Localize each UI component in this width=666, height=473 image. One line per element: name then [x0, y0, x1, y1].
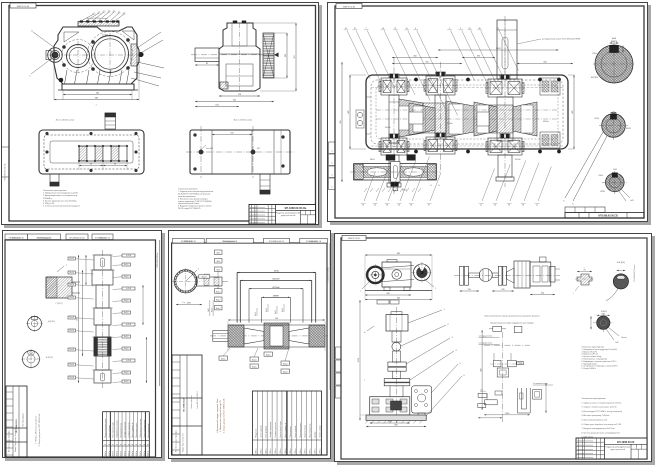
svg-text:Rа25: Rа25	[518, 363, 522, 365]
svg-text:2 фаски: 2 фаски	[621, 336, 627, 339]
svg-text:26: 26	[508, 205, 510, 207]
svg-text:8: 8	[132, 444, 134, 445]
svg-text:Ø36Р9: Ø36Р9	[626, 128, 631, 130]
svg-text:86ч0 м: 86ч0 м	[132, 450, 134, 456]
svg-text:Разраб. Пров. Т.контр. Н.контр: Разраб. Пров. Т.контр. Н.контр. Утв.	[15, 426, 17, 452]
svg-text:8: 8	[128, 444, 130, 445]
svg-text:86ч0 м: 86ч0 м	[105, 450, 107, 456]
svg-text:24: 24	[374, 205, 376, 207]
svg-text:2. Общие допуски по ГОСТ 30893: 2. Общие допуски по ГОСТ 30893.2-mК	[39, 413, 41, 447]
svg-text:Rа1,6: Rа1,6	[221, 358, 226, 360]
svg-text:Rа1,6: Rа1,6	[69, 284, 74, 286]
svg-text:33: 33	[410, 205, 412, 207]
svg-text:86ч0 м: 86ч0 м	[121, 450, 123, 456]
svg-text:1: 1	[360, 291, 361, 293]
svg-text:4. Абс цикл пространир. 7х95/ч: 4. Абс цикл пространир. 7х95/час	[582, 414, 610, 417]
svg-text:4: 4	[456, 350, 458, 352]
svg-text:250 кч: 250 кч	[300, 448, 302, 453]
svg-text:Число зубьев колеса: Число зубьев колеса	[144, 420, 146, 438]
svg-text:Rа1,6: Rа1,6	[124, 276, 129, 278]
svg-text:86ч0 м: 86ч0 м	[128, 450, 130, 456]
svg-text:Изм Лист № докум. Подп. Дата: Изм Лист № докум. Подп. Дата	[175, 430, 178, 452]
svg-text:М20: М20	[217, 270, 220, 272]
svg-text:Ø17: Ø17	[257, 148, 260, 150]
svg-text:250 кч: 250 кч	[285, 448, 287, 453]
svg-text:Ø156к6: Ø156к6	[273, 287, 281, 289]
svg-text:Rа1,6: Rа1,6	[266, 308, 268, 312]
svg-text:ЕМБРП.ОЧ.ЯБ: ЕМБРП.ОЧ.ЯБ	[343, 6, 356, 8]
svg-text:Число зубьев: Число зубьев	[295, 426, 297, 437]
svg-text:8. Частота вращения балка элек: 8. Частота вращения балка электродвигате…	[582, 432, 620, 434]
svg-text:13: 13	[362, 205, 364, 207]
svg-text:Rа1,6: Rа1,6	[69, 349, 74, 351]
svg-text:М20: М20	[217, 253, 220, 255]
svg-text:21: 21	[480, 205, 482, 207]
svg-text:3: 3	[452, 337, 454, 339]
svg-text:250 кч: 250 кч	[280, 448, 282, 453]
svg-text:5. Число зубьев барабана х1:4: 5. Число зубьев барабана х1:4	[582, 420, 608, 422]
svg-text:8: 8	[124, 444, 126, 445]
svg-text:8: 8	[117, 444, 119, 445]
svg-text:1: 1	[95, 105, 97, 107]
svg-text:В: В	[438, 185, 440, 187]
svg-text:Ø40Р9: Ø40Р9	[611, 41, 618, 43]
svg-text:Длина общей норм.: Длина общей норм.	[279, 421, 282, 438]
svg-text:двухступенчатый: двухступенчатый	[281, 214, 295, 217]
svg-text:з: з	[584, 267, 585, 269]
svg-text:Ø120к6: Ø120к6	[515, 159, 521, 161]
svg-text:0,02 А: 0,02 А	[126, 254, 132, 257]
svg-text:3. Для закладки ГОСТ 5НЖ-б, вк: 3. Для закладки ГОСТ 5НЖ-б, вкл (установ…	[582, 411, 623, 413]
svg-text:№: №	[331, 150, 334, 152]
svg-text:1х45°: 1х45°	[630, 200, 634, 202]
svg-text:Ø160к6: Ø160к6	[447, 123, 453, 125]
svg-text:КП-1968.00.00: КП-1968.00.00	[617, 440, 635, 444]
svg-text:№: №	[331, 174, 334, 176]
svg-text:Коэфф. смещения: Коэфф. смещения	[123, 422, 126, 438]
svg-text:12: 12	[31, 31, 33, 33]
svg-text:Rа1,6: Rа1,6	[69, 377, 74, 379]
svg-text:1. Нормальный модуль торцевый: 1. Нормальный модуль торцевый 10мм	[216, 398, 219, 433]
svg-text:Делит. диаметр d: Делит. диаметр d	[132, 423, 134, 437]
svg-text:Е (2,5:1): Е (2,5:1)	[46, 357, 53, 359]
svg-text:Г (2,5:1): Г (2,5:1)	[56, 303, 63, 305]
svg-text:Rа1,6: Rа1,6	[124, 372, 129, 374]
svg-text:16: 16	[494, 205, 496, 207]
svg-text:7. Нагрузка электродвигателя 4: 7. Нагрузка электродвигателя 4х12 обм	[582, 428, 616, 430]
svg-text:43: 43	[386, 205, 388, 207]
svg-text:5: 5	[460, 363, 462, 365]
svg-text:86ч0 м: 86ч0 м	[109, 450, 111, 456]
svg-text:Г: Г	[66, 265, 68, 267]
svg-text:Число зубьев z: Число зубьев z	[109, 425, 111, 438]
svg-text:2. Скорость тягового каната ук: 2. Скорость тягового каната указ. (пч/ч×…	[582, 406, 617, 409]
svg-text:8: 8	[105, 444, 107, 445]
svg-text:250 кч: 250 кч	[295, 448, 297, 453]
svg-text:8: 8	[140, 444, 142, 445]
svg-text:1: 1	[444, 309, 446, 311]
svg-text:Вал тихоходный: Вал тихоходный	[22, 414, 25, 427]
svg-text:Rа1,6: Rа1,6	[275, 310, 277, 314]
svg-text:х: х	[573, 293, 574, 295]
svg-text:КП-1968.02.01 Вал: КП-1968.02.01 Вал	[157, 253, 159, 268]
svg-text:250 кч: 250 кч	[275, 448, 277, 453]
svg-text:8: 8	[109, 444, 111, 445]
svg-text:23: 23	[522, 205, 524, 207]
svg-text:Rа1,6: Rа1,6	[124, 264, 129, 266]
svg-text:Исходный контур: Исходный контур	[120, 423, 123, 437]
svg-text:2. Нормальный исходный контур: 2. Нормальный исходный контур 25°	[219, 400, 222, 432]
svg-text:Редуктор цилиндрический: Редуктор цилиндрический	[276, 212, 300, 215]
svg-text:24 АΩК: 24 АΩК	[102, 34, 108, 37]
svg-text:Д (2,5:1): Д (2,5:1)	[47, 321, 55, 323]
svg-text:Ø98H7: Ø98H7	[273, 296, 280, 298]
svg-text:Разраб. Пров. Т.контр. Утв.: Разраб. Пров. Т.контр. Утв.	[183, 433, 185, 452]
svg-text:Делит. диаметр d: Делит. диаметр d	[285, 423, 287, 437]
svg-text:1х45°: 1х45°	[615, 342, 619, 344]
svg-text:86ч0 м: 86ч0 м	[144, 450, 146, 456]
svg-text:86ч0 м: 86ч0 м	[113, 450, 115, 456]
svg-text:М12х1: М12х1	[202, 276, 207, 278]
svg-text:Коэфф. смещения: Коэфф. смещения	[269, 422, 272, 438]
svg-text:250 кч: 250 кч	[260, 448, 262, 453]
svg-text:Колесо зубчатое: Колесо зубчатое	[191, 395, 193, 408]
svg-text:Степень точности: Степень точности	[275, 423, 277, 438]
svg-text:2: 2	[448, 324, 450, 326]
svg-text:Межосевое расст.: Межосевое расст.	[136, 422, 138, 437]
svg-text:Rа1,6: Rа1,6	[69, 364, 74, 366]
svg-text:двухступенчатый: двухступенчатый	[611, 448, 625, 451]
svg-text:250 кч: 250 кч	[270, 448, 272, 453]
svg-text:Rа1,6: Rа1,6	[283, 371, 288, 373]
svg-text:3. Общие допуски по ГОСТ 30893: 3. Общие допуски по ГОСТ 30893.2-mК	[223, 398, 225, 433]
svg-text:КП-1968.02.02 Колесо: КП-1968.02.02 Колесо	[328, 267, 330, 283]
svg-text:250 кч: 250 кч	[265, 448, 267, 453]
svg-text:Ø85к6: Ø85к6	[370, 159, 375, 161]
svg-text:З: З	[198, 269, 199, 271]
svg-text:Rа1,6: Rа1,6	[69, 258, 74, 260]
svg-text:250 кч: 250 кч	[305, 448, 307, 453]
svg-text:0,02 А: 0,02 А	[126, 287, 132, 290]
svg-text:В-В: В-В	[613, 169, 617, 171]
svg-text:№: №	[331, 162, 334, 164]
svg-text:6. Обрыв троса барабана: ч=то: 6. Обрыв троса барабана: ч=то выбор u=1,…	[582, 424, 621, 426]
svg-text:5: 5	[435, 288, 436, 290]
svg-text:Н: Н	[364, 332, 366, 334]
svg-text:Сталь 40Х: Сталь 40Х	[309, 241, 316, 243]
svg-text:Rа1,6: Rа1,6	[124, 312, 129, 314]
svg-text:1. Окружная сила на тяговом ба: 1. Окружная сила на тяговом барабане 9 к…	[582, 402, 622, 404]
svg-text:Модуль зацепления m: Модуль зацепления m	[105, 418, 107, 437]
svg-text:Rа1,6: Rа1,6	[124, 300, 129, 302]
svg-text:В: В	[430, 185, 432, 187]
svg-text:для подшипников качения ГОСТ 2: для подшипников качения ГОСТ 24810-2013 …	[542, 39, 581, 41]
svg-text:Вид по СБ/СВ и схема: Вид по СБ/СВ и схема	[56, 119, 75, 122]
svg-text:0,02 А: 0,02 А	[126, 323, 132, 326]
svg-text:6: 6	[464, 375, 466, 377]
svg-text:Направление линии: Направление линии	[117, 421, 119, 438]
svg-text:Степень точности: Степень точности	[128, 423, 130, 438]
svg-text:Ø70к6: Ø70к6	[592, 53, 597, 55]
svg-text:1 м: 1 м	[182, 302, 185, 304]
svg-text:№: №	[331, 186, 334, 188]
svg-text:Сталь 45: Сталь 45	[99, 237, 106, 239]
svg-text:4отв Ø17: 4отв Ø17	[206, 148, 213, 150]
svg-text:КП-1968.00.00.СБ: КП-1968.00.00.СБ	[598, 216, 618, 218]
svg-text:Ø28Р9: Ø28Р9	[600, 191, 605, 193]
svg-text:250 кч: 250 кч	[290, 448, 292, 453]
svg-text:Вид сопряжения: Вид сопряжения	[148, 424, 150, 438]
svg-text:Сталь 40Х ГОСТ 4543-71: Сталь 40Х ГОСТ 4543-71	[197, 391, 199, 409]
svg-text:ЕМБРП.ОЧ.ЯБ: ЕМБРП.ОЧ.ЯБ	[348, 238, 361, 240]
svg-text:5: 5	[30, 76, 31, 78]
svg-text:Ø200h9: Ø200h9	[272, 279, 280, 281]
svg-text:Ø240к6: Ø240к6	[543, 121, 549, 123]
svg-text:Технические характеристики: Технические характеристики	[582, 398, 606, 400]
svg-text:2. Вращающий момент на выходно: 2. Вращающий момент на выходном валу	[43, 194, 77, 197]
svg-text:КП-1968.00.00.СБ: КП-1968.00.00.СБ	[285, 206, 307, 210]
svg-text:250 кч: 250 кч	[310, 448, 312, 453]
svg-text:11: 11	[536, 205, 538, 207]
svg-text:8: 8	[121, 444, 123, 445]
svg-text:44: 44	[398, 205, 400, 207]
svg-text:Ø50к6: Ø50к6	[595, 118, 600, 120]
svg-text:Rа1,6: Rа1,6	[282, 308, 284, 312]
svg-text:250 кч: 250 кч	[320, 448, 322, 453]
svg-text:Вид расположения сборки оборуд: Вид расположения сборки оборудования узл…	[490, 323, 533, 325]
svg-text:Rа1,6: Rа1,6	[69, 317, 74, 319]
svg-text:9. Ресурс 4,8000 ч: 9. Ресурс 4,8000 ч	[582, 368, 596, 370]
svg-text:Справ. размер: Справ. размер	[320, 425, 322, 437]
svg-text:250 кч: 250 кч	[255, 448, 257, 453]
svg-text:Rа1,6: Rа1,6	[252, 366, 257, 368]
svg-text:Rа1,6: Rа1,6	[124, 381, 129, 383]
svg-text:КП-1968.00.00 СБ: КП-1968.00.00 СБ	[269, 241, 285, 243]
svg-text:1. НВ 240...280 после улучшени: 1. НВ 240...280 после улучшения	[36, 416, 38, 444]
svg-text:Обозначение чертежа: Обозначение чертежа	[140, 419, 142, 438]
svg-text:Rа1,6: Rа1,6	[124, 348, 129, 350]
svg-text:86ч0 м: 86ч0 м	[136, 450, 138, 456]
svg-text:Rа1,6: Rа1,6	[69, 330, 74, 332]
svg-text:5. Степень точности изготовлен: 5. Степень точности изготовления передач…	[43, 206, 80, 208]
svg-text:86ч0 м: 86ч0 м	[140, 450, 142, 456]
svg-text:Угол наклона зуба: Угол наклона зуба	[113, 422, 115, 437]
svg-text:Б-Б (5:1): Б-Б (5:1)	[617, 262, 625, 264]
svg-text:Rа1,6: Rа1,6	[252, 359, 257, 361]
svg-text:Rа1,6: Rа1,6	[69, 272, 74, 274]
svg-text:0,02 А: 0,02 А	[126, 359, 132, 362]
svg-text:М20: М20	[217, 261, 220, 263]
svg-text:Вид сопряжения: Вид сопряжения	[310, 424, 312, 438]
svg-text:27: 27	[428, 205, 430, 207]
svg-text:Межосевое расст.: Межосевое расст.	[300, 422, 302, 437]
svg-text:Угол профиля: Угол профиля	[264, 426, 267, 438]
svg-text:КП-1968.02.02: КП-1968.02.02	[184, 397, 186, 411]
svg-text:Rа1,6: Rа1,6	[255, 312, 257, 316]
svg-text:Колесо зубчатое: Колесо зубчатое	[223, 241, 235, 243]
svg-text:Б: Б	[572, 204, 574, 206]
svg-text:8: 8	[144, 444, 146, 445]
svg-text:Rа3,2: Rа3,2	[216, 291, 221, 293]
svg-text:КП 25.00.02: КП 25.00.02	[184, 241, 192, 243]
svg-text:Rа1,6: Rа1,6	[266, 354, 271, 356]
svg-text:Ø85СВЗБ: Ø85СВЗБ	[591, 77, 598, 79]
svg-text:Вид расположения сборки привод: Вид расположения сборки приводной станци…	[485, 315, 540, 318]
svg-text:Rа1,6: Rа1,6	[283, 363, 288, 365]
svg-text:8: 8	[148, 444, 150, 445]
svg-text:КП-1968.00.00.ПЗ поясн.: КП-1968.00.00.ПЗ поясн.	[634, 264, 636, 282]
svg-text:ЕМБРП.ОЧ.ЯБ: ЕМБРП.ОЧ.ЯБ	[17, 6, 30, 8]
svg-text:Редуктор цилиндрический: Редуктор цилиндрический	[606, 446, 630, 449]
svg-text:Б: Б	[563, 201, 565, 203]
svg-text:Модуль m: Модуль m	[255, 429, 257, 438]
svg-text:Rа1,6: Rа1,6	[69, 297, 74, 299]
svg-text:Г: Г	[364, 380, 365, 382]
svg-text:86ч0 м: 86ч0 м	[117, 450, 119, 456]
svg-text:86ч0 м: 86ч0 м	[124, 450, 126, 456]
svg-text:86ч0 м: 86ч0 м	[148, 450, 150, 456]
svg-text:Число зубьев z: Число зубьев z	[260, 425, 262, 438]
svg-text:Rа1,6: Rа1,6	[124, 336, 129, 338]
svg-text:Ø35к6: Ø35к6	[599, 175, 603, 177]
svg-text:Допуск: Допуск	[315, 432, 317, 438]
svg-text:Ø130к6: Ø130к6	[385, 127, 391, 129]
svg-text:Rа3,2: Rа3,2	[216, 300, 221, 302]
svg-text:Rа3,2: Rа3,2	[216, 308, 221, 310]
svg-text:ПФ-115 серой ГОСТ 6465-76.: ПФ-115 серой ГОСТ 6465-76.	[178, 207, 201, 210]
svg-text:Обозначение: Обозначение	[290, 426, 292, 437]
svg-text:КП-1968.00.00.СБ: КП-1968.00.00.СБ	[5, 163, 7, 180]
svg-text:250 кч: 250 кч	[315, 448, 317, 453]
svg-text:Ширина венца: Ширина венца	[305, 425, 307, 437]
svg-text:8: 8	[113, 444, 115, 445]
svg-text:КП 25.00.01: КП 25.00.01	[12, 237, 21, 239]
svg-text:8: 8	[136, 444, 138, 445]
svg-text:Вид по СБ/СВ и схема: Вид по СБ/СВ и схема	[234, 119, 253, 122]
svg-text:А-А: А-А	[611, 37, 616, 40]
